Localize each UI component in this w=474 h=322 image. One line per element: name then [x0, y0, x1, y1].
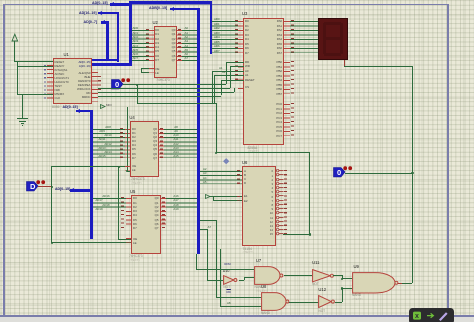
- svg-text:D: D: [30, 182, 36, 191]
- svg-text:x: x: [415, 313, 419, 320]
- svg-text:0: 0: [337, 168, 341, 177]
